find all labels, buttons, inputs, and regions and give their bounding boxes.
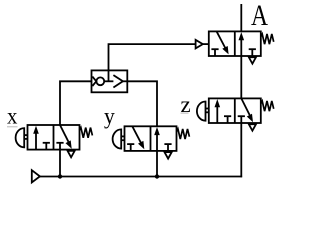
svg-text:y: y: [104, 104, 115, 129]
wire: pilot line from shuttle output up and right to valve V1 pilot: [109, 44, 196, 81]
wire: valve z to supply bus: [240, 123, 242, 177]
junction dot at valve x branch: [58, 174, 62, 178]
shuttle valve (OR element): [92, 70, 128, 92]
svg-text:A: A: [251, 0, 268, 32]
wire: supply bus: [40, 176, 243, 178]
wire: valve y supply down to bus: [156, 151, 158, 177]
svg-text:x: x: [7, 104, 18, 129]
wire: shuttle valve right input from valve y output: [127, 81, 157, 126]
compressed air source triangle: [32, 170, 40, 182]
valve x (3/2-way pushbutton valve, spring return): [16, 125, 93, 157]
wire: shuttle valve left input from valve x output: [60, 81, 92, 125]
wire: output A line above valve V1: [240, 4, 242, 31]
valve y (3/2-way pushbutton valve, spring return, normally open): [113, 126, 190, 158]
wire: valve x supply down to bus: [59, 150, 61, 177]
wire: valve V1 supply to valve z port: [240, 56, 242, 98]
valve z (3/2-way pushbutton valve, spring return): [197, 98, 274, 130]
valve V1 (3/2-way pilot valve, spring return, output A): [196, 31, 274, 63]
junction dot at valve y branch: [155, 174, 159, 178]
